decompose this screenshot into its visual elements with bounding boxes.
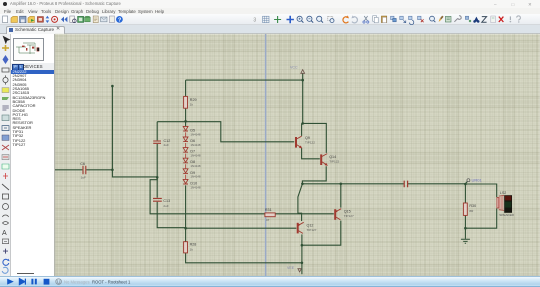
junction R29/D5	[184, 120, 187, 123]
block copy	[391, 16, 394, 19]
decompose	[465, 16, 468, 19]
junction node B (C12/C13)	[156, 176, 159, 179]
output net pin circle + label UR01	[467, 177, 483, 182]
wire bias to Q12 base	[186, 227, 297, 229]
wire VCC vertical	[303, 74, 327, 153]
wire Q15 emitter up	[340, 184, 342, 208]
wire Q15 collector down-left	[302, 221, 341, 246]
resistor R28	[184, 242, 188, 253]
speaker LS2	[497, 195, 504, 210]
left mode toolbar	[0, 34, 11, 276]
junction output/R30	[464, 183, 467, 186]
red X	[499, 17, 504, 22]
svg-text:C6: C6	[80, 162, 85, 166]
zoom all	[317, 16, 322, 21]
light page	[491, 16, 496, 23]
capacitor C6	[83, 166, 86, 175]
make device pencil	[439, 18, 442, 22]
wire jog input to node B	[112, 170, 157, 177]
junction Q12/Q15 collectors	[301, 244, 304, 247]
svg-text:1N4148: 1N4148	[190, 132, 201, 136]
diode D5	[183, 126, 188, 131]
block move	[400, 16, 403, 19]
wire input stub up	[111, 86, 113, 170]
packaging	[445, 16, 451, 22]
doc 2	[109, 16, 114, 23]
svg-text:ROOT - Rootsheet 1: ROOT - Rootsheet 1	[92, 279, 131, 284]
sheet border (blue)	[265, 34, 267, 276]
pick parts	[430, 16, 435, 21]
junction VEE rail	[301, 262, 304, 265]
copy	[373, 16, 377, 21]
junction output rail left	[301, 183, 304, 186]
svg-text:?: ?	[118, 17, 121, 23]
svg-text:Q12: Q12	[307, 223, 314, 227]
svg-text:1uF: 1uF	[81, 175, 86, 179]
pan + blue	[287, 16, 294, 23]
wire collectors to VEE stub	[301, 245, 303, 274]
grayed !	[509, 16, 511, 20]
menu bar	[0, 8, 540, 14]
ground symbol below R30	[461, 239, 470, 243]
svg-text:1k: 1k	[190, 247, 194, 251]
diode D10	[183, 179, 188, 184]
svg-text:1k: 1k	[190, 102, 194, 106]
open folder	[11, 16, 17, 22]
svg-text:2uF: 2uF	[164, 143, 169, 147]
svg-text:VCC: VCC	[290, 65, 298, 69]
diode D9	[183, 169, 188, 174]
marker blue arrows	[46, 16, 50, 23]
wire diode chain pin segments	[185, 132, 187, 179]
junction D10/R28/Q12 base	[184, 227, 187, 230]
svg-text:No Messages: No Messages	[64, 279, 90, 284]
transistor Q14 (NPN)	[321, 154, 327, 166]
junction output rail Q15 emitter	[340, 183, 343, 186]
svg-text:TIP122: TIP122	[305, 140, 315, 144]
new page	[3, 16, 8, 23]
svg-text:UR01: UR01	[472, 177, 483, 182]
title bar	[0, 0, 540, 8]
envelope	[101, 17, 107, 22]
zoom area	[328, 16, 333, 20]
node input stub endpoint	[111, 85, 114, 88]
svg-text:LS2: LS2	[500, 191, 507, 195]
device panel	[11, 34, 54, 276]
svg-text:R30: R30	[469, 204, 476, 208]
wire Q9 emitter to Q14 base	[302, 148, 320, 159]
blue rewind	[61, 17, 67, 23]
capacitor output coupling	[404, 181, 407, 188]
grid icon	[263, 16, 269, 22]
diode D7	[183, 148, 188, 153]
binoculars dark	[474, 17, 479, 22]
origin +	[274, 16, 281, 23]
zoom out	[307, 16, 312, 21]
red target	[52, 16, 58, 22]
green cylinder	[85, 16, 91, 18]
wire output to R30	[464, 184, 466, 239]
svg-text:C13: C13	[163, 199, 170, 203]
svg-text:1N4148: 1N4148	[190, 185, 201, 189]
zoom in	[297, 16, 302, 21]
diode D8	[183, 158, 188, 163]
grayed ?	[517, 16, 521, 21]
print red	[37, 17, 43, 23]
doc 1	[93, 16, 98, 23]
wire Q12 collector down	[301, 234, 303, 245]
wire output to speaker top	[465, 184, 496, 197]
status bar	[0, 276, 540, 287]
junction input node A	[111, 169, 114, 172]
svg-text:TIP127: TIP127	[344, 214, 354, 218]
wire diagonal rail to Q12 emitter	[298, 184, 303, 221]
redo	[352, 17, 357, 23]
svg-text:VEE: VEE	[287, 266, 295, 270]
capacitor C13	[153, 198, 162, 201]
svg-text:R28: R28	[190, 243, 197, 247]
transistor Q15 (PNP)	[335, 209, 341, 220]
scissors	[364, 16, 367, 21]
diode D6	[183, 137, 188, 142]
toolbar	[0, 14, 540, 25]
wire C12 C13 vertical string	[157, 122, 185, 228]
zoom page	[70, 16, 75, 22]
VCC power terminal	[290, 65, 305, 73]
wire input horizontal through C6	[55, 169, 112, 171]
svg-text:Q14: Q14	[329, 155, 336, 159]
svg-text:1N4148: 1N4148	[190, 154, 201, 158]
svg-text:SPEAKER: SPEAKER	[499, 213, 514, 217]
wire R28 bottom rail	[186, 253, 303, 263]
wire output pin stub	[465, 182, 467, 184]
capacitor C12	[153, 141, 161, 143]
svg-text:8R: 8R	[469, 209, 474, 213]
svg-text:Q9: Q9	[305, 136, 310, 140]
svg-text:TIP127: TIP127	[307, 228, 317, 232]
svg-text:3: 3	[253, 18, 256, 24]
wire Q9 collector	[301, 123, 303, 135]
svg-text:47: 47	[266, 218, 270, 222]
import folder	[28, 16, 34, 22]
junction R30/speaker bottom	[464, 227, 467, 230]
svg-text:1N4148: 1N4148	[190, 164, 201, 168]
Z tool	[482, 17, 487, 23]
wire node B to bias rail (L)	[150, 177, 334, 214]
save floppy	[20, 16, 26, 22]
paste	[381, 16, 386, 23]
svg-text:R29: R29	[190, 98, 197, 102]
svg-text:R31: R31	[265, 208, 272, 212]
wire diode chain	[185, 122, 187, 242]
green book	[78, 16, 84, 22]
schematic canvas	[55, 34, 540, 276]
junction VCC/R29 rail	[301, 79, 304, 82]
block rotate	[409, 16, 412, 19]
svg-text:Q15: Q15	[344, 209, 351, 213]
tab bar	[0, 25, 540, 34]
attribute wrench	[454, 16, 461, 22]
VEE terminal bottom	[287, 266, 301, 272]
resistor R30	[463, 203, 467, 215]
help blue circle	[116, 16, 123, 23]
block delete	[418, 16, 421, 19]
svg-text:A: A	[2, 230, 7, 237]
transistor Q12 (PNP)	[298, 222, 304, 233]
resistor R29	[184, 96, 188, 108]
svg-text:2uF: 2uF	[163, 204, 168, 208]
wire bottom to speaker	[465, 208, 496, 228]
svg-text:TIP122: TIP122	[329, 159, 339, 163]
wire output rail	[302, 183, 465, 185]
svg-text:1N4148: 1N4148	[190, 175, 201, 179]
undo	[343, 17, 348, 23]
wire Q14 emitter to output rail	[302, 166, 326, 184]
wire top rail VCC to R29	[186, 79, 303, 81]
transistor Q9 (NPN)	[296, 136, 302, 148]
resistor R31	[265, 213, 275, 217]
svg-text:1N4148: 1N4148	[190, 143, 201, 147]
wire bias mid horizontal to Q9 base	[157, 122, 294, 142]
junction VCC/Q9 collector	[301, 122, 304, 125]
wire R29 vertical	[185, 80, 187, 122]
